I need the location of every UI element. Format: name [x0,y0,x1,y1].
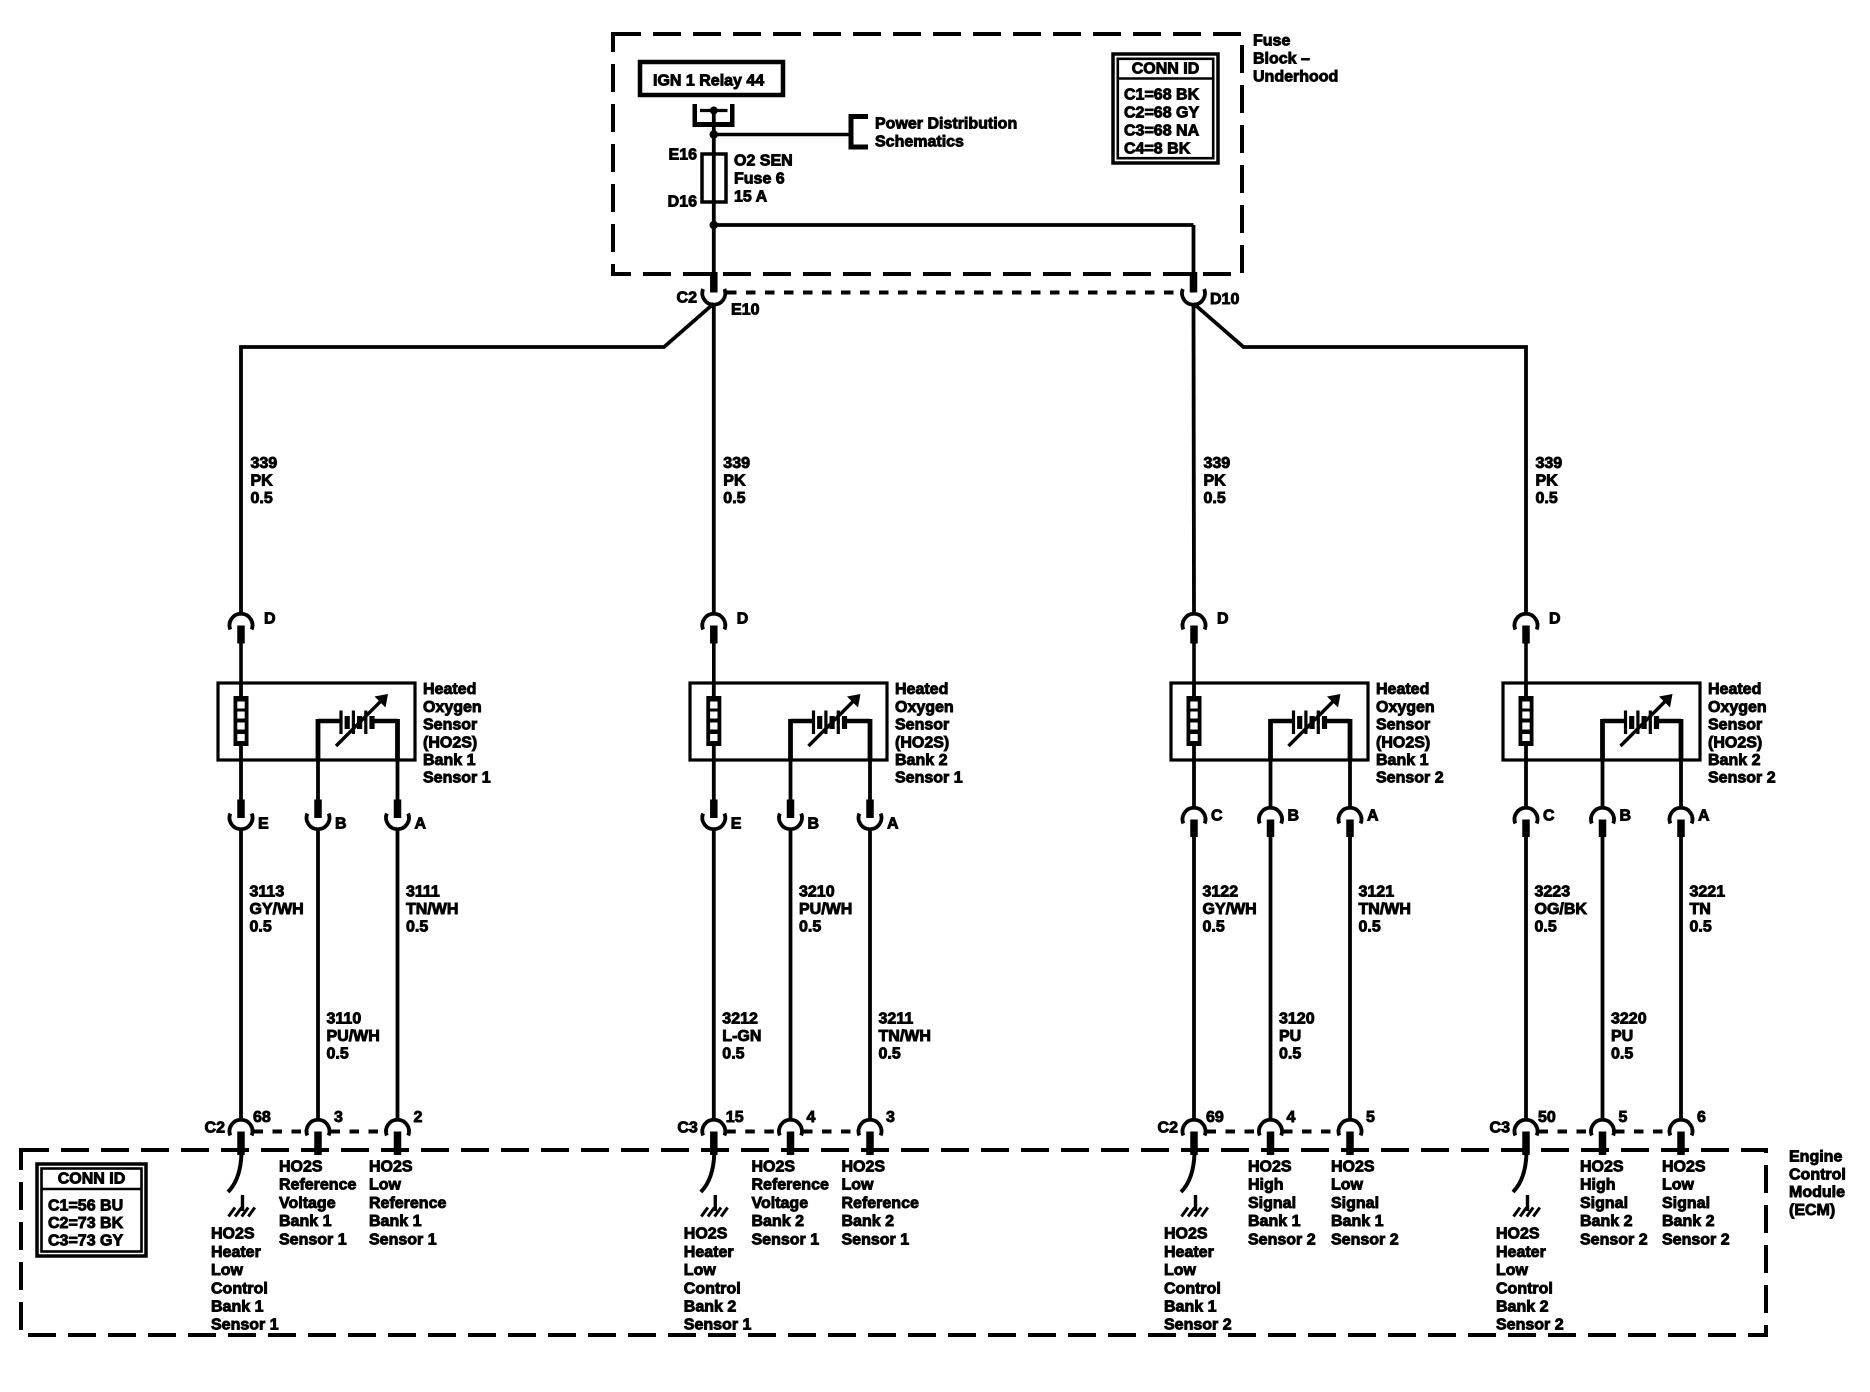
svg-text:Sensor 1: Sensor 1 [369,1231,437,1248]
svg-text:HO2S: HO2S [279,1159,323,1176]
svg-text:0.5: 0.5 [723,490,745,507]
svg-text:A: A [1698,808,1710,825]
svg-text:High: High [1248,1177,1284,1194]
svg-text:Block –: Block – [1253,51,1310,68]
svg-text:68: 68 [253,1109,271,1126]
svg-text:Bank 2: Bank 2 [842,1213,895,1230]
svg-text:(HO2S): (HO2S) [1376,734,1430,751]
svg-text:Sensor 1: Sensor 1 [684,1317,752,1334]
svg-text:CONN ID: CONN ID [58,1171,126,1188]
svg-text:TN/WH: TN/WH [879,1028,931,1045]
svg-text:Underhood: Underhood [1253,69,1338,86]
svg-text:4: 4 [1287,1109,1296,1126]
svg-text:D16: D16 [668,194,697,211]
svg-text:Fuse 6: Fuse 6 [734,171,785,188]
svg-text:3120: 3120 [1279,1011,1315,1028]
svg-text:C: C [1211,808,1223,825]
svg-text:4: 4 [807,1109,816,1126]
svg-text:Signal: Signal [1248,1195,1296,1212]
svg-text:(ECM): (ECM) [1789,1202,1835,1219]
svg-text:339: 339 [1204,455,1231,472]
svg-text:HO2S: HO2S [1248,1159,1292,1176]
svg-text:C1=56 BU: C1=56 BU [48,1198,123,1215]
svg-text:HO2S: HO2S [211,1226,255,1243]
svg-text:Sensor: Sensor [1376,717,1430,734]
svg-text:Bank 2: Bank 2 [1662,1213,1715,1230]
svg-text:High: High [1580,1177,1616,1194]
svg-text:D10: D10 [1210,291,1239,308]
svg-text:Low: Low [684,1262,717,1279]
svg-text:Bank 1: Bank 1 [211,1299,264,1316]
svg-text:339: 339 [1536,455,1563,472]
svg-text:C3=68 NA: C3=68 NA [1124,123,1200,140]
svg-text:Sensor 1: Sensor 1 [895,770,963,787]
svg-text:Bank 1: Bank 1 [279,1213,332,1230]
svg-text:Sensor 1: Sensor 1 [423,770,491,787]
svg-text:D: D [264,611,276,628]
svg-text:3110: 3110 [327,1011,362,1028]
svg-text:3210: 3210 [799,884,835,901]
svg-text:B: B [335,816,347,833]
svg-text:Heater: Heater [1164,1244,1214,1261]
svg-text:HO2S: HO2S [684,1226,728,1243]
svg-text:PU/WH: PU/WH [327,1028,380,1045]
svg-text:Sensor 2: Sensor 2 [1164,1317,1232,1334]
svg-text:HO2S: HO2S [369,1159,413,1176]
svg-text:Voltage: Voltage [752,1195,809,1212]
svg-text:Bank 2: Bank 2 [1496,1299,1549,1316]
svg-text:Oxygen: Oxygen [1708,699,1767,716]
svg-text:Voltage: Voltage [279,1195,336,1212]
svg-text:Low: Low [211,1262,244,1279]
svg-text:Oxygen: Oxygen [895,699,954,716]
svg-text:Heater: Heater [684,1244,734,1261]
svg-text:HO2S: HO2S [752,1159,796,1176]
svg-text:Sensor 1: Sensor 1 [279,1231,347,1248]
svg-text:Control: Control [211,1280,268,1297]
svg-text:Low: Low [1496,1262,1529,1279]
svg-text:E16: E16 [669,147,698,164]
svg-text:HO2S: HO2S [1496,1226,1540,1243]
svg-text:Heater: Heater [1496,1244,1546,1261]
svg-text:A: A [415,816,427,833]
svg-text:15: 15 [726,1109,744,1126]
svg-text:IGN 1 Relay 44: IGN 1 Relay 44 [653,73,764,90]
svg-text:3122: 3122 [1203,884,1239,901]
svg-text:C2=73 BK: C2=73 BK [48,1215,124,1232]
svg-text:Bank 2: Bank 2 [1708,752,1761,769]
svg-text:Low: Low [369,1177,402,1194]
svg-text:3220: 3220 [1611,1011,1647,1028]
svg-text:Bank 1: Bank 1 [369,1213,422,1230]
svg-text:PK: PK [251,473,274,490]
svg-text:3: 3 [886,1109,895,1126]
svg-text:Sensor 2: Sensor 2 [1662,1231,1730,1248]
svg-text:Bank 1: Bank 1 [1164,1299,1217,1316]
svg-text:C2=68 GY: C2=68 GY [1124,105,1199,122]
svg-text:HO2S: HO2S [1580,1159,1624,1176]
svg-text:(HO2S): (HO2S) [1708,734,1762,751]
svg-text:Sensor: Sensor [423,717,477,734]
svg-text:Reference: Reference [842,1195,919,1212]
svg-text:Low: Low [1164,1262,1197,1279]
svg-text:Bank 1: Bank 1 [1248,1213,1301,1230]
svg-text:Control: Control [1496,1280,1553,1297]
svg-text:D: D [737,611,749,628]
svg-text:3223: 3223 [1535,884,1571,901]
svg-text:339: 339 [251,455,278,472]
svg-text:E: E [258,816,269,833]
svg-text:TN/WH: TN/WH [1359,901,1411,918]
svg-text:0.5: 0.5 [1204,490,1226,507]
svg-text:Heated: Heated [423,681,476,698]
svg-text:Heater: Heater [211,1244,261,1261]
svg-text:Control: Control [1164,1280,1221,1297]
svg-text:0.5: 0.5 [722,1046,744,1063]
svg-text:Signal: Signal [1662,1195,1710,1212]
svg-text:Sensor: Sensor [1708,717,1762,734]
svg-text:0.5: 0.5 [406,919,428,936]
svg-text:Power Distribution: Power Distribution [875,116,1017,133]
svg-text:Oxygen: Oxygen [1376,699,1435,716]
svg-text:0.5: 0.5 [799,919,821,936]
svg-text:A: A [1367,808,1379,825]
svg-text:5: 5 [1619,1109,1628,1126]
svg-text:B: B [1288,808,1300,825]
svg-text:Low: Low [842,1177,875,1194]
svg-text:B: B [1620,808,1632,825]
svg-text:L-GN: L-GN [722,1028,761,1045]
svg-text:HO2S: HO2S [1164,1226,1208,1243]
svg-text:Sensor 2: Sensor 2 [1248,1231,1316,1248]
svg-text:PK: PK [1204,473,1227,490]
svg-text:Sensor 1: Sensor 1 [842,1231,910,1248]
svg-text:Bank 1: Bank 1 [1376,752,1429,769]
svg-text:0.5: 0.5 [251,490,273,507]
svg-text:C3: C3 [1490,1120,1511,1137]
svg-text:Sensor: Sensor [895,717,949,734]
svg-text:CONN ID: CONN ID [1132,61,1200,78]
svg-text:Signal: Signal [1580,1195,1628,1212]
svg-text:HO2S: HO2S [842,1159,886,1176]
svg-text:PU: PU [1279,1028,1301,1045]
svg-text:Bank 2: Bank 2 [1580,1213,1633,1230]
svg-text:Reference: Reference [752,1177,829,1194]
svg-text:3121: 3121 [1359,884,1395,901]
svg-text:0.5: 0.5 [879,1046,901,1063]
svg-text:0.5: 0.5 [250,919,272,936]
svg-text:E: E [731,816,742,833]
svg-text:TN: TN [1690,901,1711,918]
svg-text:GY/WH: GY/WH [250,901,304,918]
svg-text:C2: C2 [1158,1120,1179,1137]
svg-text:3221: 3221 [1690,884,1726,901]
svg-text:Low: Low [1331,1177,1364,1194]
svg-text:6: 6 [1697,1109,1706,1126]
svg-text:PU: PU [1611,1028,1633,1045]
svg-text:0.5: 0.5 [1611,1046,1633,1063]
svg-text:Sensor 1: Sensor 1 [211,1317,279,1334]
svg-text:Heated: Heated [895,681,948,698]
svg-text:Sensor 2: Sensor 2 [1496,1317,1564,1334]
svg-text:Sensor 2: Sensor 2 [1708,770,1776,787]
svg-text:339: 339 [723,455,750,472]
svg-text:2: 2 [414,1109,423,1126]
svg-text:Signal: Signal [1331,1195,1379,1212]
svg-text:69: 69 [1206,1109,1224,1126]
svg-text:15 A: 15 A [734,189,768,206]
svg-text:C: C [1543,808,1555,825]
svg-text:HO2S: HO2S [1331,1159,1375,1176]
svg-text:C1=68 BK: C1=68 BK [1124,87,1200,104]
svg-text:5: 5 [1366,1109,1375,1126]
svg-text:TN/WH: TN/WH [406,901,458,918]
svg-text:Sensor 2: Sensor 2 [1331,1231,1399,1248]
svg-text:Reference: Reference [369,1195,446,1212]
svg-text:C3: C3 [677,1120,698,1137]
svg-text:Oxygen: Oxygen [423,699,482,716]
svg-text:OG/BK: OG/BK [1535,901,1588,918]
svg-text:Schematics: Schematics [875,134,964,151]
svg-text:(HO2S): (HO2S) [895,734,949,751]
svg-text:Bank 1: Bank 1 [1331,1213,1384,1230]
svg-text:Sensor 1: Sensor 1 [752,1231,820,1248]
svg-text:3211: 3211 [879,1011,914,1028]
svg-text:3212: 3212 [722,1011,758,1028]
svg-text:D: D [1217,611,1229,628]
svg-text:3111: 3111 [406,884,440,901]
svg-text:0.5: 0.5 [327,1046,349,1063]
svg-text:0.5: 0.5 [1536,490,1558,507]
svg-text:Heated: Heated [1376,681,1429,698]
svg-text:Sensor 2: Sensor 2 [1580,1231,1648,1248]
svg-text:Module: Module [1789,1184,1845,1201]
svg-text:HO2S: HO2S [1662,1159,1706,1176]
svg-text:Bank 2: Bank 2 [895,752,948,769]
svg-text:E10: E10 [731,302,760,319]
svg-text:Control: Control [684,1280,741,1297]
svg-text:50: 50 [1538,1109,1556,1126]
svg-text:A: A [887,816,899,833]
svg-text:3113: 3113 [250,884,285,901]
svg-text:C4=8 BK: C4=8 BK [1124,141,1191,158]
svg-text:B: B [808,816,820,833]
svg-text:Bank 2: Bank 2 [752,1213,805,1230]
svg-text:0.5: 0.5 [1535,919,1557,936]
svg-text:GY/WH: GY/WH [1203,901,1257,918]
svg-text:PK: PK [1536,473,1559,490]
svg-text:PU/WH: PU/WH [799,901,852,918]
svg-text:Bank 1: Bank 1 [423,752,476,769]
svg-text:PK: PK [723,473,746,490]
svg-text:C3=73 GY: C3=73 GY [48,1233,123,1250]
svg-text:3: 3 [334,1109,343,1126]
svg-text:O2 SEN: O2 SEN [734,153,793,170]
svg-text:Reference: Reference [279,1177,356,1194]
svg-text:Low: Low [1662,1177,1695,1194]
svg-text:0.5: 0.5 [1359,919,1381,936]
svg-text:Bank 2: Bank 2 [684,1299,737,1316]
svg-text:C2: C2 [677,290,698,307]
svg-text:(HO2S): (HO2S) [423,734,477,751]
svg-text:0.5: 0.5 [1279,1046,1301,1063]
svg-text:0.5: 0.5 [1690,919,1712,936]
svg-text:Sensor 2: Sensor 2 [1376,770,1444,787]
svg-text:Control: Control [1789,1166,1846,1183]
svg-text:0.5: 0.5 [1203,919,1225,936]
svg-text:C2: C2 [205,1120,226,1137]
svg-text:Heated: Heated [1708,681,1761,698]
svg-text:Fuse: Fuse [1253,33,1290,50]
svg-text:Engine: Engine [1789,1149,1842,1166]
svg-text:D: D [1549,611,1561,628]
